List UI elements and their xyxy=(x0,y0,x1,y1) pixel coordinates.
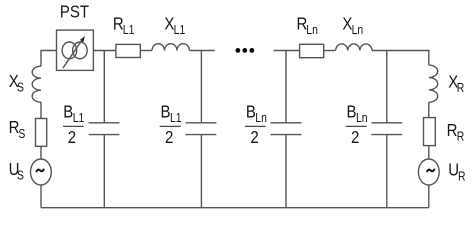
svg-text:2: 2 xyxy=(68,127,76,148)
svg-text:L1: L1 xyxy=(170,112,182,125)
svg-text:2: 2 xyxy=(165,127,173,148)
svg-text:Ln: Ln xyxy=(352,24,364,37)
svg-text:R: R xyxy=(457,82,465,95)
svg-text:Ln: Ln xyxy=(356,112,368,125)
svg-text:L1: L1 xyxy=(174,24,186,37)
svg-text:Ln: Ln xyxy=(306,24,318,37)
svg-text:R: R xyxy=(457,131,465,144)
svg-text:S: S xyxy=(17,170,24,183)
svg-text:R: R xyxy=(458,171,466,184)
svg-text:L1: L1 xyxy=(123,24,135,37)
svg-text:PST: PST xyxy=(60,1,89,22)
svg-text:2: 2 xyxy=(351,127,359,148)
svg-text:S: S xyxy=(18,128,25,141)
svg-text:L1: L1 xyxy=(73,112,85,125)
svg-text:2: 2 xyxy=(250,127,258,148)
svg-text:Ln: Ln xyxy=(255,112,267,125)
svg-text:S: S xyxy=(17,82,24,95)
